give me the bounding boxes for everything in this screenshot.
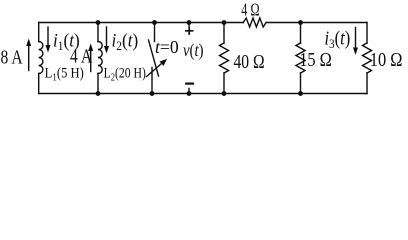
svg-text:15 Ω: 15 Ω [299,48,332,70]
svg-text:40 Ω: 40 Ω [234,50,265,72]
svg-text:v(t): v(t) [183,40,203,61]
svg-text:i2(t): i2(t) [112,29,139,53]
svg-text:8 A: 8 A [1,46,23,68]
svg-text:t=0: t=0 [155,37,179,57]
svg-text:10 Ω: 10 Ω [370,48,403,70]
svg-text:4 Ω: 4 Ω [241,1,259,20]
svg-text:i1(t): i1(t) [53,29,80,53]
svg-text:i3(t): i3(t) [325,27,351,51]
